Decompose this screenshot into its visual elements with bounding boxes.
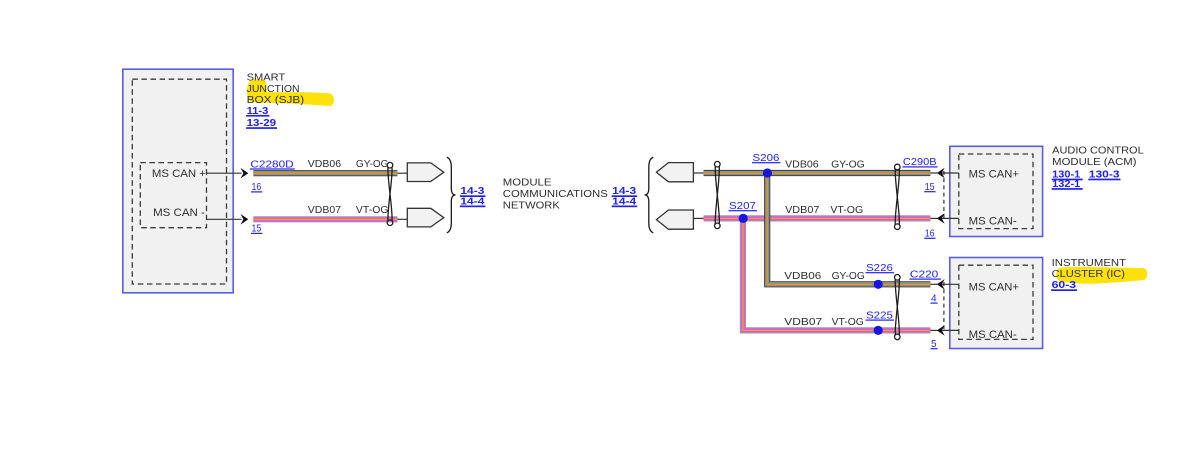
svg-text:VDB07: VDB07 — [308, 204, 341, 216]
svg-text:COMMUNICATIONS: COMMUNICATIONS — [503, 188, 608, 200]
svg-text:MS CAN+: MS CAN+ — [969, 168, 1019, 180]
svg-text:VDB07: VDB07 — [784, 316, 822, 328]
svg-text:MS CAN -: MS CAN - — [153, 207, 205, 219]
svg-text:NETWORK: NETWORK — [503, 199, 560, 211]
svg-text:MS CAN+: MS CAN+ — [969, 282, 1019, 294]
svg-text:VDB06: VDB06 — [785, 158, 819, 170]
svg-text:MS CAN +: MS CAN + — [152, 168, 206, 180]
svg-text:GY-OG: GY-OG — [831, 158, 865, 170]
svg-text:CLUSTER (IC): CLUSTER (IC) — [1052, 268, 1125, 280]
svg-text:VDB06: VDB06 — [308, 158, 341, 170]
svg-text:AUDIO CONTROL: AUDIO CONTROL — [1052, 145, 1144, 157]
svg-text:VT-OG: VT-OG — [832, 316, 864, 328]
svg-text:GY-OG: GY-OG — [832, 270, 865, 282]
svg-text:MS CAN-: MS CAN- — [969, 216, 1017, 228]
svg-text:VT-OG: VT-OG — [356, 204, 389, 216]
svg-text:VT-OG: VT-OG — [830, 204, 863, 216]
svg-text:MODULE: MODULE — [503, 176, 552, 188]
svg-text:MS CAN-: MS CAN- — [969, 329, 1017, 341]
svg-text:JUNCTION: JUNCTION — [247, 83, 300, 95]
svg-text:GY-OG: GY-OG — [356, 158, 389, 170]
svg-text:SMART: SMART — [247, 71, 286, 83]
svg-text:VDB07: VDB07 — [785, 204, 819, 216]
svg-text:VDB06: VDB06 — [784, 270, 821, 282]
svg-text:MODULE (ACM): MODULE (ACM) — [1052, 156, 1136, 168]
svg-text:INSTRUMENT: INSTRUMENT — [1052, 257, 1127, 269]
